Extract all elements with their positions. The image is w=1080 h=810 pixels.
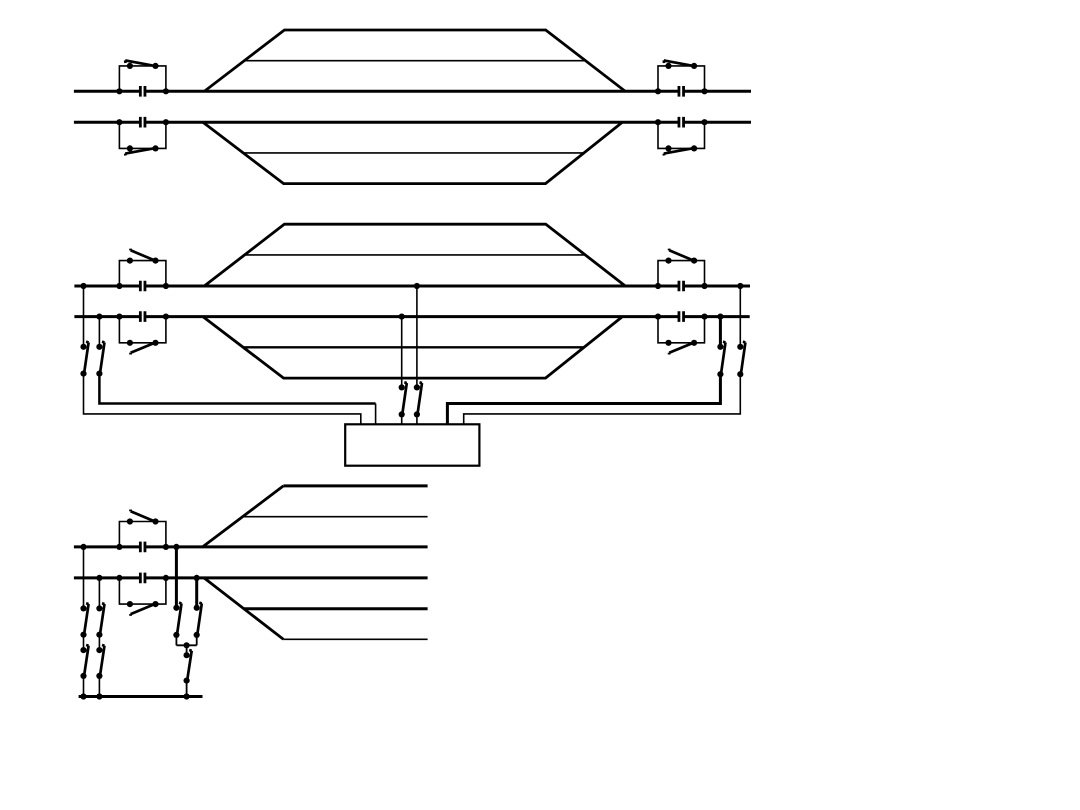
- wire (station B lower siding): [243, 346, 584, 348]
- switch S9: [80, 342, 88, 377]
- wire (bypass loop of S3): [119, 122, 165, 148]
- node S15a (junction): [116, 544, 122, 550]
- node N4 (on W3, centre): [414, 283, 420, 289]
- node S5b (junction): [163, 283, 169, 289]
- wire (W3 centre drop): [416, 286, 418, 387]
- wire (feeder drop into control box): [375, 404, 377, 425]
- node N14 (on bus): [184, 693, 190, 699]
- switch S15: [127, 510, 159, 525]
- wire (feeder from S14 to control box): [464, 374, 741, 424]
- node S7a (junction): [116, 314, 122, 320]
- switch S1: [125, 60, 158, 69]
- wire (W3 left end drop): [83, 286, 85, 347]
- wire (bypass loop of S1): [119, 66, 165, 91]
- wire (common return bus): [79, 695, 203, 698]
- node S1a (junction): [116, 88, 122, 94]
- switch S21: [173, 603, 181, 638]
- wire (bypass loop of S7): [119, 317, 165, 343]
- capacitor C9: [140, 542, 145, 553]
- wire (W6 heavy drop to S22): [195, 578, 198, 608]
- capacitor C6: [679, 281, 684, 292]
- wire (S23 to bus): [186, 681, 188, 697]
- node S7b (junction): [163, 314, 169, 320]
- capacitor C1: [140, 86, 145, 97]
- switch S16: [127, 601, 159, 616]
- capacitor C5: [140, 281, 145, 292]
- switch S14: [737, 342, 745, 378]
- wire (station A upper loop outline): [204, 30, 625, 91]
- control box U1 (power pack): [345, 424, 479, 465]
- capacitor C3: [140, 117, 145, 128]
- node S3b (junction): [163, 119, 169, 125]
- capacitor C7: [140, 311, 145, 322]
- node S15b (junction): [163, 544, 169, 550]
- node S16b (junction): [163, 575, 169, 581]
- node N9 (on W6): [96, 575, 102, 581]
- wire (yard ladder lower diagonal): [204, 578, 283, 639]
- node N5 (on W4, right): [717, 314, 723, 320]
- wire (yard ladder upper diagonal): [203, 486, 284, 547]
- wire W3 (upper main line, middle station): [74, 285, 750, 288]
- wire (bypass loop of S2): [658, 66, 705, 91]
- wire (feeder from S9 to control box): [84, 374, 361, 425]
- wire (W4 right drop, heavy feeder): [719, 317, 722, 347]
- wire (station A lower siding): [243, 152, 584, 154]
- node N1 (W3 left end): [80, 283, 86, 289]
- switch S18: [80, 645, 88, 679]
- node N11 (on W5, right): [173, 544, 179, 550]
- switch S3: [125, 145, 158, 155]
- wire (W3 right end drop): [739, 286, 741, 347]
- wire (heavy feeder from S13 to control box): [447, 374, 720, 424]
- wire (W4 centre drop): [401, 317, 403, 388]
- node S5a (junction): [116, 283, 122, 289]
- wire (station A lower loop outline): [203, 122, 623, 183]
- node N7 (on W5): [80, 544, 86, 550]
- switch S5: [127, 249, 159, 264]
- node S8b (junction): [701, 314, 707, 320]
- node N3 (on W4, centre): [399, 314, 405, 320]
- wire (W4 left drop): [98, 317, 100, 347]
- wire (yard track 1): [283, 484, 427, 487]
- node S3a (junction): [116, 119, 122, 125]
- capacitor C8: [679, 311, 684, 322]
- node S2a (junction): [655, 88, 661, 94]
- switch S23: [184, 650, 192, 684]
- switch S19: [96, 603, 104, 638]
- wire (S17 to S18): [83, 635, 85, 650]
- node S4b (junction): [701, 119, 707, 125]
- wire (S20 to bus): [98, 676, 100, 697]
- wire (station B upper siding): [245, 254, 586, 256]
- switch S11: [399, 382, 407, 417]
- wire (bracket to S23): [186, 645, 188, 655]
- node S1b (junction): [163, 88, 169, 94]
- wire W4 (lower main line, middle station): [74, 315, 749, 318]
- node S16a (junction): [116, 575, 122, 581]
- wire W1 (upper main line, top station): [74, 90, 751, 93]
- switch S17: [80, 603, 88, 638]
- node N12 (on W6, right): [194, 575, 200, 581]
- wire (S21 to junction bracket): [175, 635, 177, 645]
- wire (station B upper loop outline): [204, 224, 625, 286]
- wire (station A upper siding): [244, 60, 585, 62]
- node N13 (bracket centre): [184, 642, 190, 648]
- switch S4: [664, 145, 697, 155]
- wire (yard track 5): [244, 607, 428, 610]
- switch S8: [665, 340, 697, 355]
- wire W6 (lower main line, bottom station): [74, 576, 428, 579]
- wire (junction bracket joining S21 and S22): [176, 644, 196, 646]
- node N6 (W3 right end): [737, 283, 743, 289]
- wire (S22 to junction bracket): [196, 635, 198, 645]
- switch S20: [96, 645, 104, 679]
- wire (station B lower loop outline): [203, 317, 623, 379]
- wire (W6 drop to S19): [98, 578, 100, 609]
- wire (bypass loop of S8): [658, 317, 705, 343]
- switch S22: [194, 603, 202, 638]
- wire (bypass loop of S4): [658, 122, 705, 148]
- wire (yard track 6): [283, 638, 427, 640]
- switch S13: [717, 342, 725, 378]
- wire (feeder from S10 to control box): [99, 374, 375, 404]
- node N8 (on bus): [80, 693, 86, 699]
- wire (bypass loop of S16): [119, 578, 165, 604]
- node N10 (on bus): [96, 693, 102, 699]
- switch S10: [96, 342, 104, 377]
- wire W2 (lower main line, top station): [74, 121, 751, 124]
- node S6a (junction): [655, 283, 661, 289]
- node S2b (junction): [701, 88, 707, 94]
- capacitor C4: [679, 117, 684, 128]
- wire (yard track 2): [243, 516, 428, 518]
- node S4a (junction): [655, 119, 661, 125]
- node S8a (junction): [655, 314, 661, 320]
- node S6b (junction): [701, 283, 707, 289]
- switch S6: [665, 249, 697, 264]
- wire (W5 drop to S17): [83, 547, 85, 609]
- wire (S18 to bus): [83, 676, 85, 697]
- capacitor C2: [679, 86, 684, 97]
- wire (bypass loop of S6): [658, 261, 705, 286]
- wire (W5 heavy drop to S21): [175, 547, 178, 608]
- switch S12: [414, 382, 422, 417]
- capacitor C10: [140, 573, 145, 584]
- wire (S12 to control box): [416, 414, 418, 424]
- wire W5 (upper main line, bottom station): [74, 545, 428, 548]
- switch S7: [127, 340, 159, 355]
- wire (bypass loop of S5): [119, 261, 165, 286]
- wire (S11 to control box): [401, 414, 403, 424]
- wire (bypass loop of S15): [119, 522, 165, 547]
- wire (S19 to S20): [98, 635, 100, 650]
- node N2 (on W4): [96, 314, 102, 320]
- switch S2: [664, 60, 697, 69]
